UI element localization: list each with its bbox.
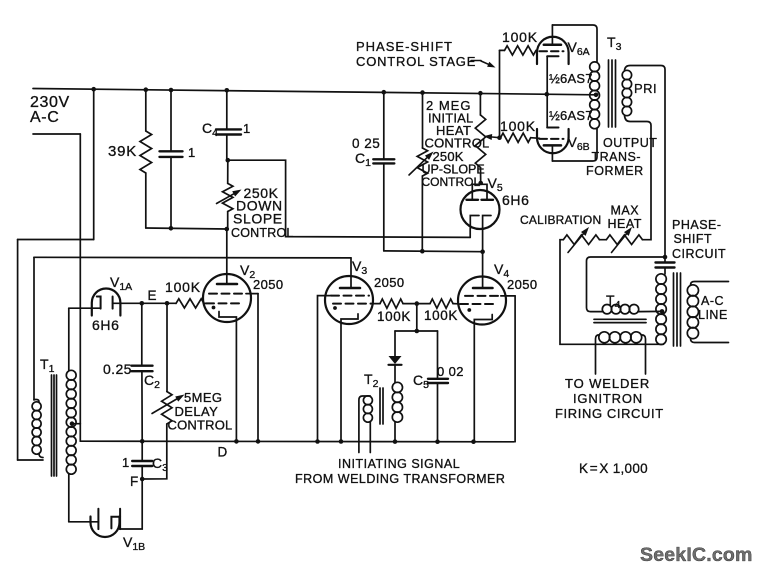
resistor 100K V6A grid: [500, 46, 537, 138]
label 0.02: [437, 364, 464, 379]
node junction V3 cathode: [339, 439, 344, 444]
wire T4 primary left lead: [587, 257, 666, 312]
resistor 100K V6B grid: [501, 133, 540, 142]
label SHIFT circuit: [674, 232, 713, 246]
label C1: [355, 150, 371, 169]
potentiometer 250K up-slope: [409, 93, 434, 252]
node junction diode C5: [415, 329, 420, 334]
transformer T2 core: [380, 388, 383, 424]
transformer AC-line right winding: [687, 285, 698, 339]
svg-text:F: F: [130, 474, 138, 489]
svg-text:0.25: 0.25: [103, 361, 132, 377]
wire T4 secondary right lead: [642, 335, 646, 374]
label V6B: [568, 134, 590, 153]
label 1 C3: [122, 455, 129, 470]
wire AC line bottom lead: [691, 339, 729, 343]
label CONTROL 2meg: [425, 136, 490, 151]
node junction V4 cathode: [471, 439, 476, 444]
label 230V: [30, 94, 70, 111]
transformer T4 secondary winding: [599, 332, 642, 343]
label 2050 V4: [507, 277, 538, 292]
tube V1A half 6H6: [92, 288, 121, 315]
diode CR1: [389, 356, 402, 383]
wire down-slope tap to V5: [228, 160, 470, 237]
svg-text:C4: C4: [202, 120, 218, 139]
wire C4 to down-slope pot: [227, 160, 229, 183]
wire T1 primary top to anode line: [33, 257, 35, 400]
label PRI: [634, 81, 657, 96]
label CONTROL delay: [168, 418, 233, 433]
wire to T1 primary bottom: [18, 459, 43, 461]
svg-text:T4: T4: [606, 292, 621, 311]
label CALIBRATION: [520, 213, 601, 227]
svg-text:100K: 100K: [377, 309, 411, 324]
transformer AC-line core: [674, 273, 681, 346]
label HEAT: [436, 123, 471, 138]
svg-text:INITIATING SIGNAL: INITIATING SIGNAL: [338, 457, 460, 471]
label TO WELDER: [565, 376, 650, 391]
node junction top bus at 6AS7 cathodes: [545, 92, 550, 97]
potentiometer 250K down slope: [217, 183, 242, 229]
resistor 100K V4 grid: [430, 299, 459, 308]
resistor 100K V2 grid: [176, 299, 206, 308]
tube V2 2050: [203, 229, 258, 441]
callout arrow control stage: [471, 61, 496, 68]
svg-text:IGNITRON: IGNITRON: [573, 391, 643, 406]
resistor 39K: [140, 90, 152, 228]
node junction up-slope bottom: [420, 249, 425, 254]
transformer T2 primary winding: [359, 396, 373, 453]
wire divider to diode and C5: [395, 304, 438, 331]
tube V1B half 6H6: [91, 509, 121, 537]
svg-text:1: 1: [243, 121, 250, 136]
wire 230V lower terminal: [33, 133, 80, 135]
label PHASE-SHIFT: [356, 39, 453, 54]
svg-text:FORMER: FORMER: [586, 164, 644, 178]
svg-text:T1: T1: [40, 356, 55, 375]
label 2 MEG: [426, 98, 471, 113]
node junction T2 secondary: [393, 439, 398, 444]
label 0 25 C1 value: [352, 136, 380, 151]
svg-text:MAX: MAX: [611, 204, 640, 218]
svg-text:CONTROL STAGE: CONTROL STAGE: [356, 54, 476, 69]
label 250K down: [244, 185, 279, 201]
label V2: [240, 262, 255, 281]
svg-text:100K: 100K: [502, 29, 538, 45]
wiper arrow 2 MEG: [484, 134, 500, 140]
label INITIAL: [428, 111, 473, 126]
wire V1B cathode to F: [120, 479, 143, 529]
svg-text:2050: 2050: [253, 277, 284, 292]
label SLOPE: [233, 211, 283, 227]
wire calibration to AC line bottom: [560, 240, 664, 345]
svg-text:SHIFT: SHIFT: [674, 232, 713, 246]
svg-text:A-C: A-C: [30, 109, 59, 126]
transformer T4 core: [594, 319, 646, 322]
label 100K V3r: [377, 309, 411, 324]
node junction V2 cathode: [234, 439, 239, 444]
svg-text:C2: C2: [144, 372, 160, 391]
svg-text:FROM WELDING TRANSFORMER: FROM WELDING TRANSFORMER: [295, 472, 505, 486]
svg-text:D: D: [218, 445, 228, 460]
wire V6B plate to T3 bottom: [552, 129, 597, 162]
label V1B: [123, 534, 145, 553]
label DELAY: [175, 404, 219, 419]
transformer T1 secondary winding: [66, 308, 76, 522]
label V1A: [110, 274, 132, 293]
tube V3 2050: [318, 258, 381, 442]
wire V6A plate to T3 top: [552, 25, 597, 62]
node junction top bus at 2 MEG pot: [478, 91, 483, 96]
label UP-SLOPE: [422, 163, 485, 177]
node T1 centre tap: [70, 421, 75, 426]
node junction C5: [435, 439, 440, 444]
node junction V2 screen return: [256, 439, 261, 444]
label HEAT: [608, 217, 642, 231]
label LINE: [698, 308, 728, 322]
potentiometer MAX HEAT: [600, 227, 643, 253]
svg-text:V6B: V6B: [568, 134, 590, 153]
label 1 filter cap value: [188, 145, 195, 160]
potentiometer 5 MEG delay: [142, 303, 184, 479]
label A-C supply: [30, 109, 59, 126]
svg-text:V6A: V6A: [568, 39, 590, 58]
label 6H6 V1A: [92, 317, 119, 333]
transformer T1 core: [52, 375, 57, 476]
wire T4 primary right lead: [639, 310, 663, 312]
svg-text:CONTROL: CONTROL: [231, 226, 294, 240]
label 250K up: [433, 149, 464, 164]
node junction top bus at C4: [225, 88, 230, 93]
wire diode branch: [394, 331, 396, 356]
svg-text:HEAT: HEAT: [608, 217, 642, 231]
svg-text:CALIBRATION: CALIBRATION: [520, 213, 601, 227]
tube V6B half 6AS7: [537, 128, 569, 162]
capacitor C3: [132, 441, 152, 479]
tube V6A half 6AS7: [537, 25, 569, 128]
svg-text:C1: C1: [355, 150, 371, 169]
svg-text:PHASE-SHIFT: PHASE-SHIFT: [356, 39, 453, 54]
svg-text:TRANS-: TRANS-: [592, 150, 642, 164]
node F junction: [140, 477, 145, 482]
node junction down-slope tap: [226, 158, 231, 163]
capacitor C4: [216, 90, 241, 160]
svg-text:6H6: 6H6: [502, 192, 529, 208]
svg-text:PHASE-: PHASE-: [672, 218, 722, 232]
svg-text:V1B: V1B: [123, 534, 145, 553]
svg-text:V5: V5: [488, 175, 503, 194]
label C2: [144, 372, 160, 391]
label CONTROL STAGE: [356, 54, 476, 69]
label MAX: [611, 204, 640, 218]
wire lower left node line: [146, 228, 227, 229]
label 6H6 V5: [502, 192, 529, 208]
label 100K V6A: [502, 29, 538, 45]
svg-text:A-C: A-C: [701, 294, 724, 308]
label OUTPUT: [603, 136, 657, 150]
label T4: [606, 292, 621, 311]
node junction V5 cathode to V4 anode: [480, 249, 485, 254]
label DOWN: [236, 198, 283, 214]
svg-text:FIRING CIRCUIT: FIRING CIRCUIT: [555, 406, 664, 421]
wire anode line B: [384, 250, 483, 253]
node junction AC winding tap: [660, 309, 665, 314]
transformer AC-line left winding: [656, 274, 666, 345]
label half 6AS7 lower: [549, 108, 593, 123]
svg-text:½6AS7: ½6AS7: [549, 71, 593, 86]
label TRANS-: [592, 150, 642, 164]
label V5: [488, 175, 503, 194]
svg-text:5MEG: 5MEG: [184, 390, 222, 405]
label 2050 V3: [374, 275, 405, 290]
svg-text:PRI: PRI: [634, 81, 657, 96]
label D: [218, 445, 228, 460]
node junction down-slope pot bottom: [225, 227, 230, 232]
wire vertical from 230V lower terminal to bottom bus: [79, 134, 81, 441]
svg-text:39K: 39K: [108, 143, 137, 160]
svg-text:K = X 1,000: K = X 1,000: [579, 461, 648, 476]
capacitor 1 filter: [160, 90, 183, 228]
svg-text:C5: C5: [413, 372, 429, 391]
label half 6AS7 upper: [549, 71, 593, 86]
label 0.25 C2: [103, 361, 132, 377]
svg-text:0 25: 0 25: [352, 136, 380, 151]
watermark SeekIC.com: [640, 544, 753, 566]
wire V1A cathode to E: [113, 302, 176, 304]
svg-text:½6AS7: ½6AS7: [549, 108, 593, 123]
label C5: [413, 372, 429, 391]
svg-text:2050: 2050: [374, 275, 405, 290]
node junction top bus at left vertical: [91, 87, 96, 92]
node junction 2MEG wiper: [497, 135, 502, 140]
node junction top bus at T3 centre tap: [594, 93, 599, 98]
wire T1 centre tap: [72, 423, 80, 425]
label E: [148, 288, 157, 303]
svg-text:6H6: 6H6: [92, 317, 119, 333]
wire PRI bottom to max heat: [625, 116, 652, 240]
label K equals X 1000: [579, 461, 648, 476]
node junction top bus at C1: [382, 90, 387, 95]
capacitor C5: [428, 331, 448, 442]
label T3: [607, 34, 622, 53]
wire bottom common bus: [80, 440, 514, 443]
label T2: [364, 371, 379, 390]
wire PRI top to phase-shift: [625, 66, 666, 258]
svg-text:SLOPE: SLOPE: [233, 211, 283, 227]
svg-text:1: 1: [188, 145, 195, 160]
potentiometer CALIBRATION: [563, 227, 599, 253]
svg-text:CIRCUIT: CIRCUIT: [672, 247, 726, 261]
label FROM WELDING TRANSFORMER: [295, 472, 505, 486]
label INITIATING SIGNAL: [338, 457, 460, 471]
node D junction C3: [140, 439, 145, 444]
label PHASE- circuit: [672, 218, 722, 232]
label FORMER: [586, 164, 644, 178]
label IGNITRON: [573, 391, 643, 406]
label 1 C4 value: [243, 121, 250, 136]
node junction delay pot top: [165, 301, 170, 306]
svg-text:100K: 100K: [165, 279, 201, 295]
label V3: [352, 258, 367, 277]
wire top supply bus: [33, 89, 596, 95]
transformer T4 primary winding: [602, 305, 638, 314]
svg-text:1: 1: [122, 455, 129, 470]
label 100K V6B: [500, 118, 536, 134]
label V6A: [568, 39, 590, 58]
transformer T3 primary winding: [590, 62, 600, 129]
wire horizontal to far left: [18, 239, 94, 241]
node junction filter cap bottom: [169, 226, 174, 231]
tube V4 2050: [458, 252, 515, 442]
label C3: [152, 455, 168, 474]
svg-text:LINE: LINE: [698, 308, 728, 322]
transformer T3 secondary winding PRI: [622, 70, 631, 115]
resistor 100K V3 output: [380, 299, 430, 308]
wire V1A plate lead: [69, 307, 101, 309]
label 100K V4r: [424, 308, 458, 323]
svg-text:C3: C3: [152, 455, 168, 474]
svg-text:E: E: [148, 288, 157, 303]
capacitor C2: [132, 366, 153, 442]
node junction V3 grid return: [315, 439, 320, 444]
svg-text:SeekIC.com: SeekIC.com: [640, 544, 753, 566]
svg-text:CONTROL: CONTROL: [168, 418, 233, 433]
capacitor C1: [373, 92, 394, 251]
potentiometer 2 MEG initial heat: [475, 93, 485, 183]
node junction top bus at up-slope pot: [420, 90, 425, 95]
svg-text:T2: T2: [364, 371, 379, 390]
label F: [130, 474, 138, 489]
node junction top bus at 39K: [144, 87, 149, 92]
wire T4 secondary left lead: [596, 335, 600, 374]
svg-text:V3: V3: [352, 258, 367, 277]
label CONTROL down slope: [231, 226, 294, 240]
node junction divider: [415, 301, 420, 306]
label 5MEG: [184, 390, 222, 405]
node junction top bus at filter cap: [169, 88, 174, 93]
wire far left vertical: [17, 240, 19, 461]
label C4: [202, 120, 218, 139]
node E junction: [140, 301, 145, 306]
label CIRCUIT circuit: [672, 247, 726, 261]
svg-text:T3: T3: [607, 34, 622, 53]
label 39K: [108, 143, 137, 160]
transformer T1 primary winding: [32, 400, 43, 458]
capacitor phase-shift: [656, 257, 675, 274]
svg-text:0 02: 0 02: [437, 364, 464, 379]
label V4: [494, 261, 509, 280]
label A-C: [701, 294, 724, 308]
label FIRING CIRCUIT: [555, 406, 664, 421]
transformer T2 secondary winding: [392, 382, 402, 441]
node junction phase-shift: [663, 255, 668, 260]
svg-text:CONTROL: CONTROL: [425, 136, 490, 151]
tube V5 6H6: [461, 181, 500, 252]
wire E to C2: [141, 303, 143, 365]
transformer T3 core: [609, 60, 616, 127]
label T1: [40, 356, 55, 375]
wire AC line top lead: [691, 282, 729, 286]
svg-text:100K: 100K: [500, 118, 536, 134]
svg-text:OUTPUT: OUTPUT: [603, 136, 657, 150]
wire T1 to V1B plate: [69, 521, 99, 523]
svg-text:2050: 2050: [507, 277, 538, 292]
label 2050 V2: [253, 277, 284, 292]
label 100K V2: [165, 279, 201, 295]
svg-text:TO WELDER: TO WELDER: [565, 376, 650, 391]
wire from top bus down left: [93, 89, 95, 239]
svg-text:100K: 100K: [424, 308, 458, 323]
label CONTROL up-slope: [422, 175, 481, 189]
wire anode supply line: [34, 256, 351, 259]
